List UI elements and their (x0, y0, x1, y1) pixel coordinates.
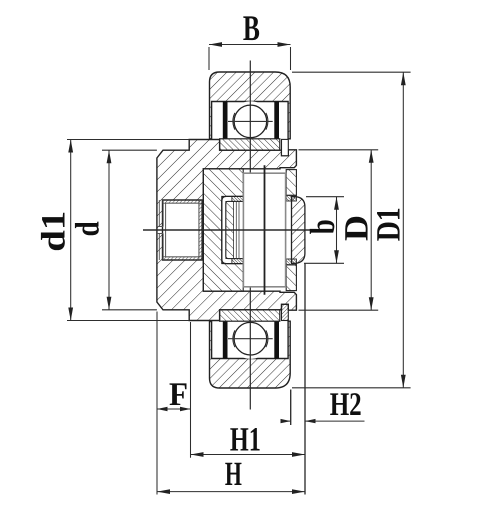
dimension d1 line (70, 140, 72, 321)
bottom seal right (274, 322, 279, 359)
dimension D extension lines (299, 150, 379, 310)
dimension B line (209, 44, 291, 46)
flanged bushing inner profile (226, 201, 243, 258)
dimension B extension lines (209, 47, 291, 70)
inner sleeve ring left part (hatched) (203, 169, 243, 291)
bottom raceway arc right (266, 330, 268, 347)
arrow D top (369, 150, 374, 163)
dimension D1 extension lines (292, 72, 411, 388)
dimension d1 extension lines (67, 140, 189, 321)
arrow F right (180, 407, 191, 411)
dimension F line (157, 408, 191, 410)
dimension H1 line (191, 454, 306, 456)
bottom raceway arc left (233, 330, 235, 347)
arrow H2 left (281, 419, 291, 423)
sleeve gap lines (236, 201, 239, 258)
dimension b extension lines (304, 197, 344, 264)
bottom bearing inner ring (220, 310, 280, 321)
dimension b line (336, 197, 338, 264)
arrow B right (278, 42, 291, 47)
top bearing inner ring (220, 139, 280, 150)
bottom bearing outer ring (section) (210, 321, 291, 388)
arrow D1 top (401, 72, 406, 85)
top seal left (223, 101, 228, 138)
arrow H right (292, 489, 305, 494)
cavity inner bore outline (166, 203, 199, 257)
dimension d extension lines (102, 150, 157, 310)
bottom ball (234, 322, 267, 355)
svg-text:H2: H2 (330, 387, 362, 423)
spacer washer left top (fine hatch) (232, 196, 243, 201)
bottom seal left (223, 322, 228, 359)
arrow D1 bottom (401, 375, 406, 388)
roller column centerline (264, 165, 266, 294)
svg-text:H1: H1 (230, 421, 261, 458)
bottom retaining collar (hatched) (282, 304, 289, 320)
top retaining collar (282, 139, 289, 155)
top ball (234, 105, 267, 138)
svg-text:d: d (69, 221, 106, 236)
top ball centerline (228, 120, 273, 122)
bore mouth chamfer line 2 (162, 200, 164, 260)
inner sleeve ring right lower block (286, 265, 296, 291)
dimension D1 line (402, 72, 404, 388)
cavity liner strip bottom (163, 257, 203, 260)
spacer washer left bottom (232, 259, 243, 264)
bore mouth chamfer line 1 (158, 200, 160, 260)
dimension H2 leader lines (282, 420, 364, 422)
arrow b top (334, 197, 339, 210)
arrow d1 top (68, 140, 73, 153)
dimension H line (157, 491, 305, 493)
arrow d1 bottom (68, 308, 73, 321)
flanged bushing outer profile (222, 196, 243, 263)
arrow B left (209, 42, 222, 47)
bottom ball pocket (230, 319, 270, 359)
svg-text:d1: d1 (35, 211, 72, 252)
inner sleeve ring right upper block (286, 170, 296, 196)
spacer washer right top (286, 195, 296, 201)
svg-text:D1: D1 (371, 207, 408, 241)
bottom ball centerline (228, 338, 273, 340)
arrow H2 right (305, 419, 316, 423)
top bearing outer ring (section) (210, 72, 291, 139)
arrow d top (107, 150, 112, 163)
dimension d line (108, 150, 110, 310)
main hub body (section, hatched) (157, 140, 297, 321)
cavity liner strip right (199, 200, 202, 260)
arrow d bottom (107, 297, 112, 310)
dimension D line (370, 150, 372, 310)
arrow F left (157, 407, 168, 411)
spacer washer right bottom (286, 259, 296, 265)
svg-text:b: b (303, 219, 342, 234)
arrow H1 right (292, 452, 305, 457)
top ball pocket (230, 101, 270, 141)
top raceway arc right (266, 113, 268, 130)
svg-text:B: B (243, 8, 260, 48)
grease hole (157, 227, 163, 234)
svg-text:F: F (169, 377, 188, 413)
horizontal axis centerline (143, 229, 312, 231)
bushing web core (hatched) (226, 201, 234, 258)
arrow H1 left (191, 452, 204, 457)
vertical axis centerline (249, 61, 251, 410)
roller column (243, 173, 285, 287)
top raceway arc left (233, 113, 235, 130)
arrow b bottom (334, 250, 339, 263)
arrow D bottom (369, 297, 374, 310)
side plate ring (protruding right) (292, 197, 305, 264)
dimension F extension lines (157, 312, 191, 495)
top seal right (274, 101, 279, 138)
dimension H2 extension lines (291, 264, 305, 495)
cavity liner strip top (163, 200, 203, 203)
arrow H left (157, 489, 170, 494)
svg-text:H: H (225, 456, 242, 493)
